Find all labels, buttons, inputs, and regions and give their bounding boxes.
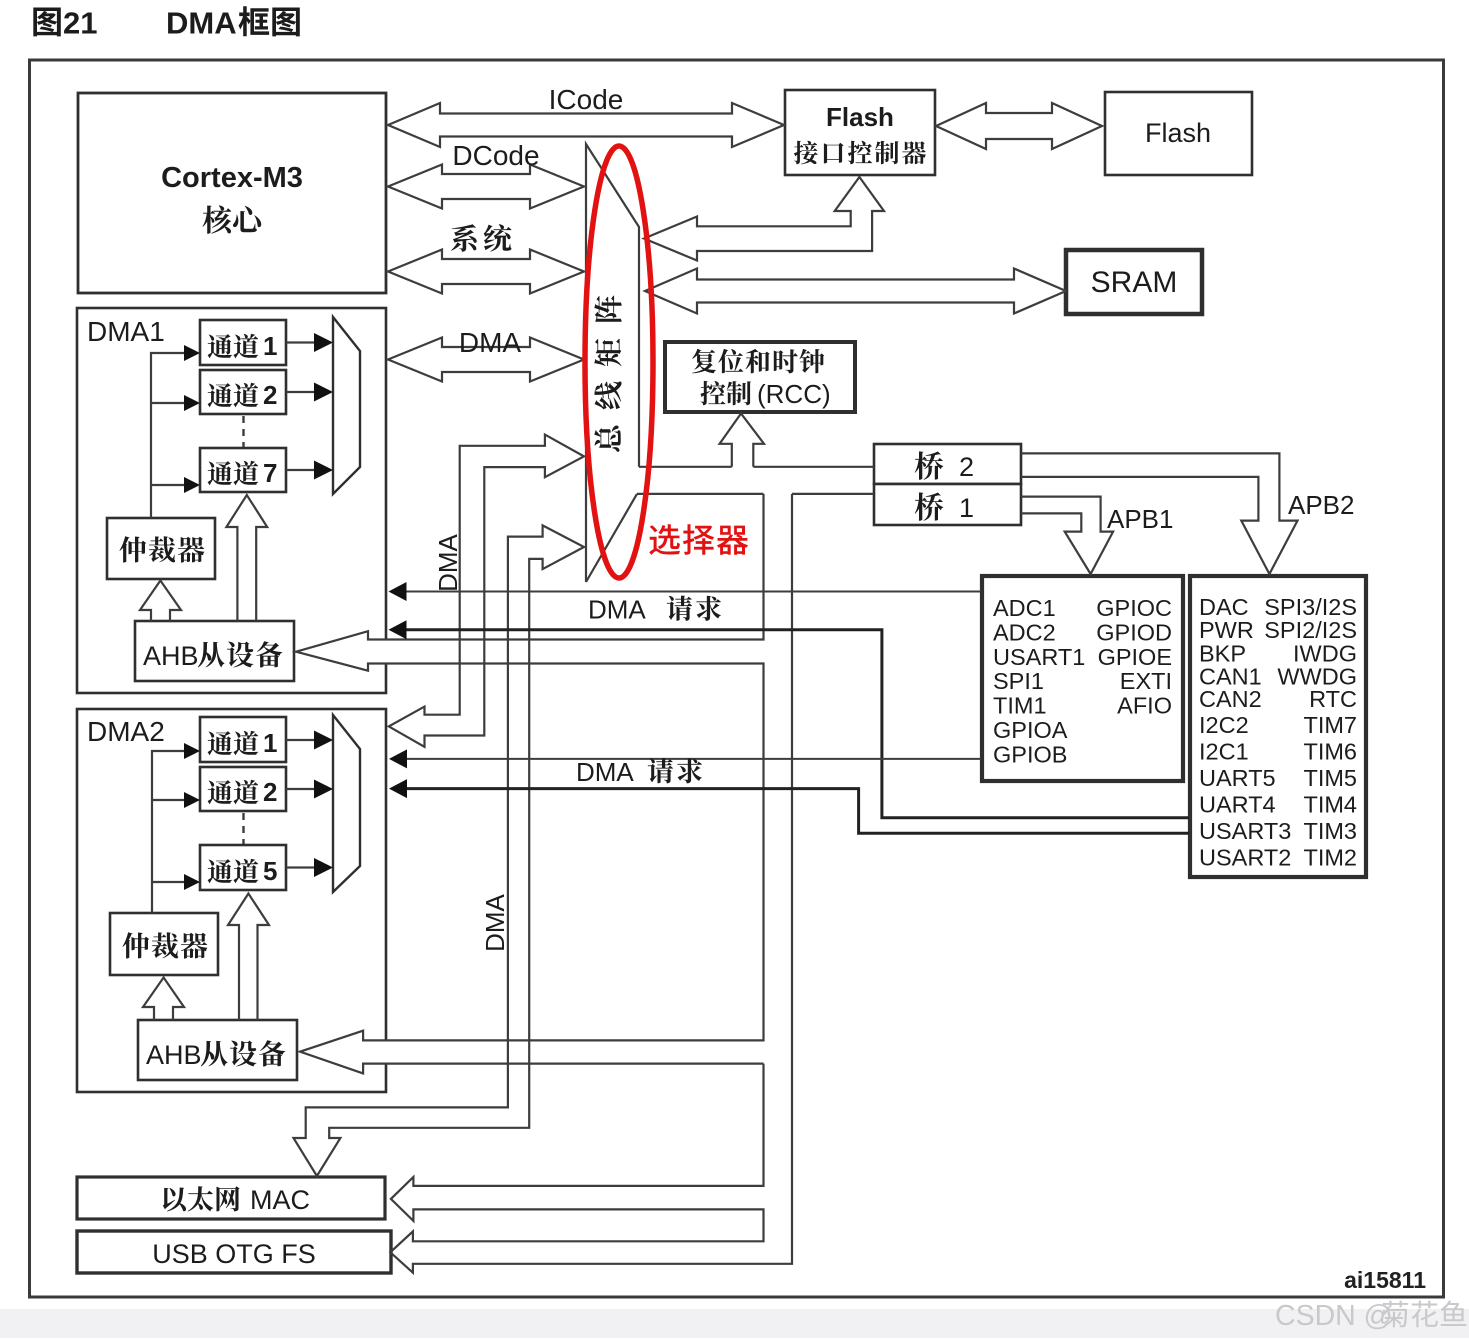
- svg-text:AHB: AHB: [143, 641, 199, 671]
- svg-text:GPIOD: GPIOD: [1096, 619, 1172, 645]
- double arrow Flash interface to Flash: [936, 103, 1102, 149]
- open arrow DMA2 AHB slave to channel 5: [228, 894, 269, 1021]
- svg-text:CAN2: CAN2: [1199, 686, 1262, 712]
- svg-text:DMA: DMA: [459, 327, 522, 358]
- svg-text:DMA: DMA: [166, 6, 237, 41]
- svg-text:2: 2: [263, 777, 277, 807]
- svg-text:USART1: USART1: [993, 644, 1085, 670]
- DMA1 output mux trapezoid: [333, 317, 360, 494]
- svg-text:DCode: DCode: [452, 140, 539, 171]
- APB2 peripherals box: [1190, 576, 1366, 877]
- DMA request wire APB2 to DMA2 (thick, bent): [407, 789, 1189, 834]
- svg-text:Flash: Flash: [826, 102, 894, 132]
- svg-text:GPIOC: GPIOC: [1096, 595, 1172, 621]
- svg-text:USART3: USART3: [1199, 818, 1291, 844]
- svg-text:AHB: AHB: [146, 1040, 202, 1070]
- Flash memory box: [1105, 92, 1252, 175]
- AHB system bus: vertical trunk with arrows into DMA1 and DMA2 AHB slave ports: [296, 494, 764, 1074]
- DMA1 controller box: [77, 308, 386, 693]
- ICode bus double arrow: [388, 103, 784, 147]
- AHB system bus: lower trunk with arrows into Ethernet MAC and USB OTG FS: [390, 494, 792, 1273]
- DMA1 master bus: bent open arrow matrix / DMA2 port: [389, 435, 584, 747]
- svg-text:TIM5: TIM5: [1303, 765, 1357, 791]
- arrowhead into DMA1 channel 7: [184, 477, 200, 493]
- svg-text:TIM7: TIM7: [1303, 712, 1357, 738]
- open arrow DMA2 AHB slave to arbiter: [143, 978, 184, 1021]
- svg-text:(RCC): (RCC): [757, 379, 831, 409]
- svg-text:DMA2: DMA2: [87, 716, 165, 747]
- red ellipse highlighting bus matrix: [585, 146, 653, 578]
- SRAM box: [1066, 250, 1202, 314]
- svg-text:APB2: APB2: [1288, 490, 1355, 520]
- open arrow DMA1 AHB slave to arbiter: [140, 581, 181, 622]
- dashed ellipsis between DMA1 channels: [242, 416, 244, 447]
- system bus double arrow: [388, 250, 584, 294]
- DCode bus double arrow: [388, 165, 584, 209]
- DMA request wire APB2 to DMA1 (thick, bent): [406, 630, 1189, 818]
- svg-text:GPIOA: GPIOA: [993, 717, 1068, 743]
- system bus label 系统: [451, 224, 512, 252]
- USB OTG FS box: [77, 1231, 391, 1273]
- svg-text:SRAM: SRAM: [1091, 266, 1178, 299]
- wire DMA2 channel 5 to mux: [286, 866, 315, 868]
- bridge 1 box: [874, 484, 1021, 525]
- svg-text:EXTI: EXTI: [1120, 668, 1172, 694]
- svg-text:2: 2: [959, 452, 974, 482]
- svg-text:TIM3: TIM3: [1303, 818, 1357, 844]
- svg-text:APB1: APB1: [1107, 504, 1174, 534]
- svg-text:I2C2: I2C2: [1199, 712, 1249, 738]
- svg-text:RTC: RTC: [1309, 686, 1357, 712]
- arrowhead into DMA2 channel 2: [184, 792, 200, 808]
- svg-text:SPI2/I2S: SPI2/I2S: [1264, 617, 1357, 643]
- bent arrow bus matrix to Flash interface: [644, 177, 884, 261]
- wire DMA2 channel 1 to mux: [286, 739, 315, 741]
- svg-text:ADC2: ADC2: [993, 619, 1056, 645]
- APB2 wire and open arrow from bridge2 into APB2 box: [1021, 453, 1298, 574]
- DMA1 channel 2 box: [200, 370, 286, 414]
- arrowhead into DMA2 channel 1: [184, 743, 200, 759]
- DMA1 channel 1 box: [200, 320, 286, 365]
- svg-text:TIM6: TIM6: [1303, 739, 1357, 765]
- svg-text:GPIOB: GPIOB: [993, 741, 1067, 767]
- wire DMA1 channel 2 to mux: [286, 391, 315, 393]
- svg-text:1: 1: [263, 728, 277, 758]
- DMA2 master bus: open arrow into matrix, down to Ethernet MAC: [294, 525, 585, 1176]
- svg-text:DMA: DMA: [588, 595, 646, 625]
- open arrow DMA1 AHB slave to channel 7: [226, 495, 267, 621]
- svg-text:ai15811: ai15811: [1344, 1267, 1426, 1293]
- red label 选择器: [649, 524, 748, 555]
- APB1 wire and open arrow from bridge1 into APB1 box: [1021, 497, 1113, 574]
- arrowhead into DMA2 channel 5: [184, 874, 200, 890]
- open arrow up into RCC: [720, 414, 764, 467]
- wire DMA1 channel 7 to mux: [286, 469, 315, 471]
- svg-text:1: 1: [959, 493, 974, 523]
- DMA2 controller box: [77, 709, 386, 1092]
- svg-text:CSDN @: CSDN @: [1275, 1300, 1393, 1332]
- svg-text:DMA1: DMA1: [87, 316, 165, 347]
- DMA2 arbiter-to-channels trunk wire: [152, 751, 186, 913]
- svg-text:I2C1: I2C1: [1199, 739, 1249, 765]
- DMA request wire APB1 to DMA1 (thin): [404, 591, 981, 593]
- DMA1 channel 7 box: [200, 448, 286, 492]
- double arrow bus matrix to SRAM: [645, 269, 1066, 314]
- svg-text:7: 7: [263, 458, 277, 488]
- svg-text:Flash: Flash: [1145, 118, 1211, 148]
- DMA bus double arrow: [388, 338, 584, 382]
- svg-text:GPIOE: GPIOE: [1098, 644, 1172, 670]
- DMA1 arbiter box: [107, 518, 215, 579]
- arrowhead into DMA1 channel 1: [184, 345, 200, 361]
- DMA2 output mux trapezoid: [333, 715, 360, 892]
- wire DMA1 channel 1 to mux: [286, 341, 315, 343]
- svg-text:DMA: DMA: [480, 893, 510, 951]
- svg-text:DMA: DMA: [433, 533, 463, 591]
- DMA2 channel 1 box: [200, 717, 286, 762]
- svg-text:USART2: USART2: [1199, 845, 1291, 871]
- svg-text:USB OTG FS: USB OTG FS: [152, 1239, 316, 1269]
- APB1 peripherals box: [982, 576, 1183, 781]
- bridge 2 box: [874, 444, 1021, 484]
- bottom gray bar: [0, 1309, 1469, 1338]
- arrowhead into DMA1 channel 2: [184, 395, 200, 411]
- wire DMA2 channel 2 to mux: [286, 788, 315, 790]
- dashed ellipsis between DMA2 channels: [242, 813, 244, 844]
- AHB bus fill: arrow into DMA1 AHB slave: [296, 631, 764, 671]
- DMA2 channel 2 box: [200, 767, 286, 811]
- figure title 图21 DMA框图: [33, 8, 61, 37]
- svg-text:21: 21: [63, 6, 97, 41]
- Flash interface controller box: [785, 90, 935, 175]
- DMA2 channel 5 box: [200, 845, 286, 890]
- svg-text:SPI1: SPI1: [993, 668, 1044, 694]
- svg-text:DMA: DMA: [576, 757, 634, 787]
- svg-text:TIM1: TIM1: [993, 693, 1047, 719]
- svg-text:TIM2: TIM2: [1303, 845, 1357, 871]
- svg-text:1: 1: [263, 331, 277, 361]
- Cortex-M3 core box: [78, 93, 386, 293]
- svg-text:UART5: UART5: [1199, 765, 1276, 791]
- Ethernet MAC box: [77, 1177, 385, 1219]
- svg-text:ADC1: ADC1: [993, 595, 1056, 621]
- bus matrix label 总线矩阵 (rotated): [594, 296, 621, 452]
- DMA1 arbiter-to-channels trunk wire: [151, 353, 186, 518]
- DMA1 AHB slave box: [135, 621, 294, 681]
- AHB bus wire matrix to bridge1 (lower line): [637, 493, 874, 495]
- svg-text:5: 5: [263, 856, 277, 886]
- RCC reset and clock control box: [665, 342, 855, 412]
- AHB bus wire matrix to bridge2 (upper line): [639, 466, 874, 468]
- svg-text:Cortex-M3: Cortex-M3: [161, 162, 303, 194]
- svg-text:AFIO: AFIO: [1117, 693, 1172, 719]
- DMA request wire APB1 to DMA2 (thin): [406, 758, 981, 760]
- AHB bus fill: arrow into DMA2 AHB slave: [300, 1031, 764, 1074]
- svg-text:2: 2: [263, 380, 277, 410]
- svg-text:ICode: ICode: [549, 84, 624, 115]
- DMA2 arbiter box: [110, 913, 218, 975]
- svg-text:PWR: PWR: [1199, 617, 1254, 643]
- bus matrix symbol (selector): [586, 144, 639, 582]
- svg-text:MAC: MAC: [250, 1185, 310, 1215]
- DMA2 AHB slave box: [138, 1020, 297, 1080]
- svg-text:UART4: UART4: [1199, 792, 1276, 818]
- svg-text:TIM4: TIM4: [1303, 792, 1357, 818]
